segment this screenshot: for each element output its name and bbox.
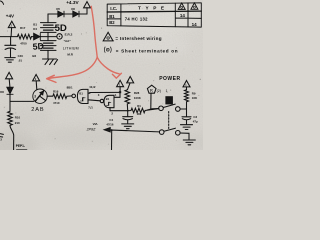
power arrow A6	[127, 77, 134, 83]
capacitor C3 47u	[182, 109, 191, 124]
diode D5	[58, 11, 64, 17]
svg-text:5D: 5D	[55, 23, 67, 34]
svg-text:7,/1: 7,/1	[88, 106, 93, 110]
wire: junction to U2 input	[114, 93, 120, 97]
svg-text:(2): (2)	[157, 89, 161, 93]
diode D6	[73, 11, 79, 17]
svg-text:16K: 16K	[192, 96, 198, 100]
paper background	[0, 0, 203, 150]
gate U2 (B1 74HC132 NAND schmitt)	[100, 99, 103, 102]
svg-text:8B/1: 8B/1	[67, 85, 73, 89]
capacitor C40	[5, 37, 16, 58]
resistor R10	[8, 101, 13, 125]
power arrow A7	[183, 81, 190, 87]
power arrow A4 (collector)	[33, 75, 40, 81]
wire: U2 pin2 stub down	[109, 108, 111, 111]
svg-text:2AB: 2AB	[31, 107, 44, 113]
svg-text:10,/2: 10,/2	[89, 85, 96, 89]
svg-text:2P8Z: 2P8Z	[86, 127, 97, 131]
switch S1 contact top-right	[176, 107, 181, 112]
svg-text:R17: R17	[20, 26, 26, 30]
switch S1 contact top-left	[159, 106, 164, 111]
svg-text:TYPE: TYPE	[138, 6, 169, 11]
capacitor C4	[123, 111, 133, 124]
svg-text:= Intersheet wiring: = Intersheet wiring	[115, 36, 161, 41]
svg-text:D6: D6	[71, 7, 75, 11]
red annotation arrow (Y-shaped)	[47, 6, 122, 82]
svg-text:47µ: 47µ	[193, 120, 198, 124]
svg-text:I.C.: I.C.	[110, 6, 117, 11]
svg-text:R16: R16	[53, 89, 59, 93]
switch S1 contact bottom-right	[176, 131, 181, 136]
switch S1 lever top	[163, 104, 175, 107]
svg-text:VIA: VIA	[93, 122, 99, 126]
svg-text:POWER: POWER	[159, 76, 180, 82]
wire: +4V rail	[0, 36, 17, 38]
svg-text:+4.3V: +4.3V	[66, 0, 79, 5]
svg-text:D8: D8	[0, 90, 4, 94]
svg-text:180: 180	[137, 112, 142, 116]
svg-text:.01: .01	[18, 58, 22, 62]
svg-text:4700: 4700	[20, 41, 27, 45]
svg-text:100K: 100K	[134, 96, 142, 100]
svg-text:3: 3	[34, 94, 36, 98]
gate U1 (B1 74HC132 NAND schmitt)	[72, 94, 76, 98]
ground (C3)	[181, 125, 193, 130]
wire: U1 top input rail	[88, 91, 120, 94]
switch S1 wire left	[147, 109, 158, 111]
svg-text:4710: 4710	[53, 101, 60, 105]
ground (switch)	[183, 140, 195, 145]
svg-text:74 HC 132: 74 HC 132	[125, 17, 148, 22]
wire: net stem to switch	[150, 93, 152, 108]
switch S1 lever bottom	[164, 128, 175, 131]
svg-text:B2: B2	[32, 54, 36, 58]
svg-text:D5: D5	[56, 7, 60, 11]
svg-text:B1: B1	[106, 97, 110, 101]
wire: A1 stem	[10, 28, 13, 37]
svg-text:R10: R10	[15, 115, 21, 119]
wire: U2 to R28 node	[110, 110, 128, 112]
node: sheet-term circle on battery tap	[48, 36, 57, 38]
wire: junction drop to sheet edge	[111, 130, 113, 150]
svg-text:B1: B1	[109, 14, 115, 19]
switch S1 dashed link	[168, 112, 170, 129]
switch S1 contact bottom-left	[159, 130, 164, 135]
wire: U2 output to U1 input	[88, 100, 100, 101]
wire: R10 to PEP1	[10, 125, 14, 150]
svg-text:PEP1-: PEP1-	[16, 144, 25, 148]
corner mark	[0, 1, 3, 4]
svg-text:47/16: 47/16	[106, 123, 113, 127]
power arrow A3 (left rail)	[6, 72, 13, 78]
svg-text:M.R: M.R	[67, 53, 73, 57]
svg-text:14: 14	[180, 13, 186, 18]
wire: top-right contact to C3 node	[180, 108, 186, 110]
net symbol R(2) 1	[147, 85, 156, 93]
resistor R28 100K	[125, 90, 130, 111]
off-sheet arrow VIA 2P8Z	[104, 128, 110, 132]
wire: battery top rail	[48, 13, 87, 15]
junction dot	[111, 129, 113, 131]
resistor R21 180	[128, 108, 159, 113]
junction dot	[119, 91, 121, 93]
off-sheet stub 3	[0, 134, 3, 137]
wire: bottom-right contact to ground	[180, 133, 189, 140]
legend: intersheet wiring	[103, 32, 113, 41]
svg-text:C3: C3	[193, 115, 197, 119]
wire: left rail to transistor emitter	[10, 100, 34, 102]
transistor Q1 2AB	[33, 89, 47, 103]
diode D4	[32, 36, 49, 38]
resistor R16	[47, 94, 72, 99]
resistor R17	[17, 34, 31, 39]
switch S1 button	[165, 96, 173, 104]
junction dot	[127, 110, 129, 112]
svg-text:R9: R9	[192, 92, 196, 96]
svg-text:R28: R28	[134, 91, 140, 95]
diode D8	[7, 87, 13, 93]
IC table	[107, 3, 201, 27]
svg-text:D4: D4	[33, 27, 37, 31]
svg-text:R: R	[150, 88, 153, 93]
legend: sheet terminated	[104, 47, 111, 53]
power arrow A2 (+4.3V)	[84, 2, 91, 8]
wire: switch bottom to via	[105, 130, 159, 132]
svg-text:= Sheet terminated on: = Sheet terminated on	[116, 48, 178, 53]
svg-text:14: 14	[192, 22, 198, 27]
svg-text:B1: B1	[33, 22, 37, 26]
svg-text:B1: B1	[79, 91, 83, 95]
svg-text:210: 210	[15, 121, 20, 125]
ground (C4)	[122, 124, 134, 129]
ground (C40)	[5, 58, 15, 63]
svg-text:C4: C4	[109, 118, 113, 122]
ground (battery)	[43, 59, 58, 65]
svg-text:+4V: +4V	[6, 13, 15, 18]
resistor R9 16K	[185, 90, 189, 109]
svg-text:LITHIUM: LITHIUM	[63, 46, 79, 50]
svg-text:R1: R1	[137, 104, 141, 108]
svg-text:B2: B2	[109, 20, 115, 25]
power arrow A5	[117, 80, 124, 86]
power arrow A1 (+4V)	[8, 21, 15, 27]
